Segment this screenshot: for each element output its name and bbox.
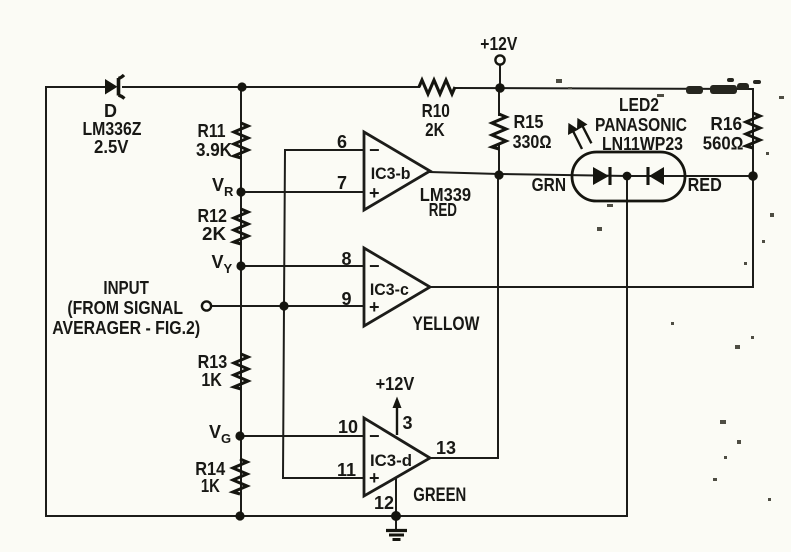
svg-text:R: R xyxy=(224,184,234,199)
pin 3 +12V arrow xyxy=(376,374,415,435)
wire pin 8 (V_Y) xyxy=(241,265,364,267)
node R15 / output xyxy=(494,170,503,179)
wire +12V drop xyxy=(499,65,501,88)
svg-text:7: 7 xyxy=(337,173,347,193)
wire pin 6 xyxy=(285,149,364,151)
node +12V rail xyxy=(495,83,505,93)
+12V supply terminal xyxy=(480,34,517,65)
svg-text:R10: R10 xyxy=(422,101,450,121)
wire LED centre riser xyxy=(626,176,628,516)
svg-text:2K: 2K xyxy=(425,120,445,140)
svg-text:+12V: +12V xyxy=(480,34,517,54)
op-amp U1 comparator IC3-b xyxy=(337,132,471,220)
wire R15 bottom to output net xyxy=(498,146,500,175)
LED2 package outline xyxy=(572,95,687,201)
svg-text:1K: 1K xyxy=(201,370,222,390)
node R16 / red anode xyxy=(748,171,758,181)
wire pin 10 (V_G) xyxy=(240,435,364,437)
wire left rail xyxy=(45,87,47,516)
svg-text:R13: R13 xyxy=(198,352,228,372)
svg-text:LM336Z: LM336Z xyxy=(83,119,142,139)
node input junction xyxy=(279,301,288,310)
wire R16 drop xyxy=(752,146,754,176)
scan noise specks (decorative) xyxy=(556,79,784,501)
wire input riser xyxy=(283,150,364,478)
wire R15 branch top xyxy=(498,88,500,115)
svg-text:−: − xyxy=(369,256,380,276)
scan noise smudges along top rail (decorative) xyxy=(686,78,761,94)
node V_R xyxy=(212,175,234,199)
node chain bottom xyxy=(235,511,244,520)
svg-text:RED: RED xyxy=(688,175,722,195)
wire divider chain vertical xyxy=(240,87,242,516)
op-amp U2 comparator IC3-c xyxy=(341,248,479,335)
svg-text:3.9K: 3.9K xyxy=(196,140,232,160)
svg-text:+12V: +12V xyxy=(376,374,415,394)
svg-text:9: 9 xyxy=(341,289,351,309)
svg-text:3: 3 xyxy=(403,413,413,433)
svg-text:R15: R15 xyxy=(514,112,544,132)
resistor R12 xyxy=(198,206,249,244)
node chain top xyxy=(237,82,246,91)
LED light emission arrows xyxy=(568,118,591,149)
svg-text:GREEN: GREEN xyxy=(413,485,466,506)
svg-text:+: + xyxy=(369,297,380,317)
svg-text:−: − xyxy=(369,426,380,446)
svg-text:−: − xyxy=(369,140,380,160)
svg-text:V: V xyxy=(209,422,221,442)
svg-text:R11: R11 xyxy=(198,121,226,141)
ground xyxy=(386,531,407,540)
svg-text:GRN: GRN xyxy=(532,175,566,195)
svg-text:R12: R12 xyxy=(198,206,228,226)
wire top rail R10 to right corner xyxy=(455,88,753,89)
resistor R13 xyxy=(198,352,248,390)
svg-text:LN11WP23: LN11WP23 xyxy=(602,134,683,154)
svg-text:12: 12 xyxy=(374,493,394,513)
svg-text:AVERAGER - FIG.2): AVERAGER - FIG.2) xyxy=(52,318,200,338)
svg-text:RED: RED xyxy=(429,200,457,220)
wire right rail down to yellow output xyxy=(752,89,754,287)
wire bottom rail xyxy=(46,515,627,517)
svg-text:V: V xyxy=(212,252,224,272)
svg-text:13: 13 xyxy=(436,438,456,458)
diode D (LM336Z zener) xyxy=(83,75,142,157)
svg-text:1K: 1K xyxy=(201,476,220,496)
op-amp U3 comparator IC3-d xyxy=(337,417,466,513)
svg-text:+: + xyxy=(369,183,380,203)
svg-text:560Ω: 560Ω xyxy=(703,134,744,154)
LED green diode xyxy=(532,167,610,195)
wire top rail diode to R10 xyxy=(123,86,419,88)
svg-text:IC3-d: IC3-d xyxy=(370,451,412,470)
input terminal xyxy=(52,278,211,338)
svg-text:2.5V: 2.5V xyxy=(94,137,129,157)
node junction dots xyxy=(235,82,757,521)
resistor R11 xyxy=(196,121,248,160)
node V_Y junction xyxy=(236,261,245,270)
wire pin 9 (input) xyxy=(211,305,364,307)
svg-text:D: D xyxy=(104,101,117,121)
node V_G junction xyxy=(235,431,244,440)
svg-text:6: 6 xyxy=(337,132,347,152)
svg-text:Y: Y xyxy=(224,261,233,276)
resistor R10 xyxy=(419,80,455,140)
wire pin13 riser xyxy=(430,175,498,458)
node V_R junction xyxy=(236,187,245,196)
resistor R14 xyxy=(195,459,247,496)
resistor R15 xyxy=(492,112,552,152)
wire top rail left segment (to diode) xyxy=(46,86,104,88)
resistor R16 xyxy=(703,113,760,154)
svg-text:V: V xyxy=(212,175,224,195)
svg-text:PANASONIC: PANASONIC xyxy=(595,115,687,135)
wire pin 12 drop xyxy=(395,478,397,529)
svg-text:LED2: LED2 xyxy=(619,95,659,115)
svg-text:10: 10 xyxy=(338,417,358,437)
svg-text:2K: 2K xyxy=(202,224,226,244)
svg-text:R16: R16 xyxy=(710,114,742,134)
svg-text:INPUT: INPUT xyxy=(103,278,149,298)
node LED centre xyxy=(623,172,632,181)
svg-text:YELLOW: YELLOW xyxy=(412,314,479,335)
svg-text:IC3-b: IC3-b xyxy=(371,164,411,183)
wire red output net xyxy=(430,172,753,176)
LED red diode xyxy=(648,167,722,195)
svg-text:330Ω: 330Ω xyxy=(513,132,552,152)
svg-text:+: + xyxy=(369,468,380,488)
svg-text:(FROM SIGNAL: (FROM SIGNAL xyxy=(67,298,183,318)
svg-text:8: 8 xyxy=(341,249,351,269)
wire pin 7 (V_R) xyxy=(241,191,364,193)
node V_G xyxy=(209,422,231,446)
wire yellow output xyxy=(431,286,753,288)
svg-text:11: 11 xyxy=(337,460,356,480)
node ground junction xyxy=(391,511,401,521)
svg-text:IC3-c: IC3-c xyxy=(370,280,409,299)
node V_Y xyxy=(212,252,233,276)
svg-text:G: G xyxy=(221,431,231,446)
